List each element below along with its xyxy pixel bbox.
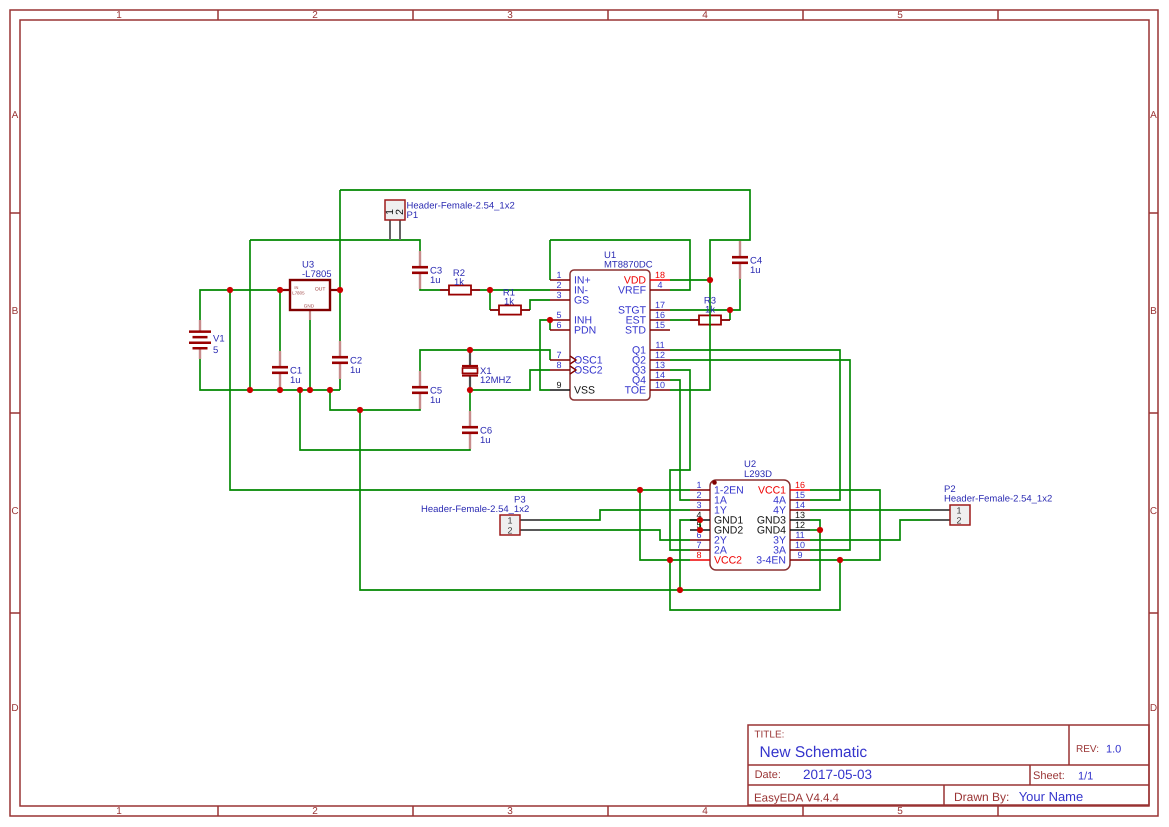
svg-text:D: D <box>1150 703 1157 714</box>
svg-text:16: 16 <box>795 480 805 490</box>
svg-text:1.0: 1.0 <box>1106 744 1121 756</box>
svg-text:3: 3 <box>507 10 513 21</box>
svg-text:VREF: VREF <box>618 285 646 297</box>
svg-text:1u: 1u <box>430 395 441 406</box>
svg-text:New Schematic: New Schematic <box>760 744 868 761</box>
svg-text:7: 7 <box>556 350 561 360</box>
svg-text:11: 11 <box>795 530 804 540</box>
svg-text:2: 2 <box>956 515 961 525</box>
svg-text:1/1: 1/1 <box>1078 771 1093 783</box>
svg-text:Header-Female-2.54_1x2: Header-Female-2.54_1x2 <box>421 504 529 515</box>
svg-text:STD: STD <box>625 325 646 337</box>
svg-text:GND: GND <box>304 304 315 309</box>
svg-text:A: A <box>12 110 19 121</box>
svg-text:2: 2 <box>507 525 512 535</box>
svg-text:7: 7 <box>696 540 701 550</box>
svg-text:L293D: L293D <box>744 469 772 480</box>
svg-text:1k: 1k <box>504 297 514 308</box>
svg-text:1u: 1u <box>750 265 761 276</box>
svg-text:1k: 1k <box>454 277 464 288</box>
svg-text:6: 6 <box>556 320 561 330</box>
svg-text:B: B <box>1150 306 1157 317</box>
svg-text:10: 10 <box>655 380 665 390</box>
svg-text:Header-Female-2.54_1x2: Header-Female-2.54_1x2 <box>944 494 1052 505</box>
svg-text:Date:: Date: <box>755 769 781 781</box>
svg-text:15: 15 <box>795 490 805 500</box>
svg-text:D: D <box>11 703 18 714</box>
svg-text:VSS: VSS <box>574 385 595 397</box>
svg-text:13: 13 <box>655 360 665 370</box>
svg-text:4: 4 <box>657 280 662 290</box>
svg-text:1: 1 <box>696 480 701 490</box>
svg-text:L7805: L7805 <box>292 290 305 295</box>
svg-text:1u: 1u <box>480 435 491 446</box>
svg-text:8: 8 <box>696 550 701 560</box>
svg-text:4: 4 <box>702 806 708 817</box>
svg-text:14: 14 <box>795 500 805 510</box>
svg-text:3: 3 <box>507 806 513 817</box>
svg-text:2: 2 <box>312 806 318 817</box>
svg-text:2: 2 <box>556 280 561 290</box>
svg-text:B: B <box>12 306 19 317</box>
svg-text:2: 2 <box>394 209 406 215</box>
svg-text:C: C <box>11 506 18 517</box>
svg-text:1: 1 <box>956 505 961 515</box>
svg-text:12: 12 <box>655 350 665 360</box>
svg-text:1: 1 <box>556 270 561 280</box>
svg-text:2017-05-03: 2017-05-03 <box>803 767 872 782</box>
svg-text:8: 8 <box>556 360 561 370</box>
svg-text:5: 5 <box>213 345 218 356</box>
svg-text:3: 3 <box>696 500 701 510</box>
svg-text:GS: GS <box>574 295 589 307</box>
svg-text:REV:: REV: <box>1076 744 1099 755</box>
svg-text:12: 12 <box>795 520 805 530</box>
svg-text:A: A <box>1150 110 1157 121</box>
svg-text:P1: P1 <box>407 210 419 221</box>
svg-text:Your Name: Your Name <box>1019 789 1084 804</box>
svg-text:11: 11 <box>655 340 664 350</box>
svg-text:12MHZ: 12MHZ <box>480 375 511 386</box>
svg-text:-L7805: -L7805 <box>302 269 332 280</box>
svg-text:5: 5 <box>897 10 903 21</box>
svg-text:5: 5 <box>897 806 903 817</box>
svg-text:2: 2 <box>312 10 318 21</box>
svg-text:TOE: TOE <box>625 385 646 397</box>
svg-text:1u: 1u <box>350 365 361 376</box>
svg-text:OUT: OUT <box>315 286 326 292</box>
svg-text:Header-Female-2.54_1x2: Header-Female-2.54_1x2 <box>407 201 515 212</box>
svg-text:PDN: PDN <box>574 325 596 337</box>
svg-text:2: 2 <box>696 490 701 500</box>
svg-text:1u: 1u <box>430 275 441 286</box>
svg-text:14: 14 <box>655 370 665 380</box>
svg-text:VCC2: VCC2 <box>714 555 742 567</box>
svg-text:13: 13 <box>795 510 805 520</box>
svg-text:C: C <box>1150 506 1157 517</box>
svg-text:5: 5 <box>556 310 561 320</box>
svg-text:OSC2: OSC2 <box>574 365 603 377</box>
svg-text:MT8870DC: MT8870DC <box>604 260 653 271</box>
svg-text:17: 17 <box>655 300 665 310</box>
svg-text:Sheet:: Sheet: <box>1033 770 1065 782</box>
svg-text:15: 15 <box>655 320 665 330</box>
svg-text:16: 16 <box>655 310 665 320</box>
svg-text:1: 1 <box>116 10 122 21</box>
svg-text:TITLE:: TITLE: <box>754 730 784 741</box>
svg-text:3-4EN: 3-4EN <box>756 555 786 567</box>
svg-text:10: 10 <box>795 540 805 550</box>
svg-text:EasyEDA V4.4.4: EasyEDA V4.4.4 <box>754 793 840 805</box>
svg-text:1: 1 <box>507 515 512 525</box>
svg-text:1k: 1k <box>705 305 715 316</box>
svg-text:Drawn By:: Drawn By: <box>954 790 1009 804</box>
svg-text:IN: IN <box>294 285 298 290</box>
svg-text:1u: 1u <box>290 375 301 386</box>
svg-text:V1: V1 <box>213 334 225 345</box>
svg-text:9: 9 <box>797 550 802 560</box>
svg-text:4: 4 <box>702 10 708 21</box>
svg-text:9: 9 <box>556 380 561 390</box>
svg-text:1: 1 <box>116 806 122 817</box>
svg-text:3: 3 <box>556 290 561 300</box>
svg-text:18: 18 <box>655 270 665 280</box>
